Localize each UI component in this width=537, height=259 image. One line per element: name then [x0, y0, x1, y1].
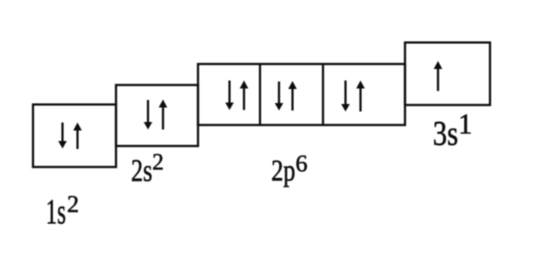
- svg-text:2: 2: [152, 149, 164, 174]
- svg-text:1s: 1s: [46, 191, 66, 232]
- svg-text:2: 2: [67, 192, 79, 218]
- svg-text:3s: 3s: [433, 114, 458, 152]
- svg-text:2p: 2p: [271, 154, 295, 189]
- svg-text:6: 6: [296, 151, 308, 177]
- svg-text:2s: 2s: [131, 154, 152, 189]
- svg-text:1: 1: [458, 110, 472, 141]
